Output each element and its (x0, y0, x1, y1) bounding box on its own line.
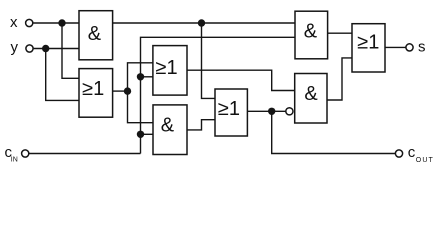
wire G3 output to G7 input 1 (187, 70, 295, 90)
terminal circle x (26, 19, 33, 26)
wire cin vertical riser to G6 input 2 (141, 37, 296, 153)
wire G6 output to G8 input 1 (328, 32, 352, 34)
and-gate G1 (x AND y) (79, 11, 113, 60)
wire G4 output to G5 input 2 (187, 120, 215, 130)
svg-text:y: y (11, 39, 19, 56)
wire y branch to G2 input 2 (46, 49, 79, 101)
svg-text:&: & (304, 21, 318, 43)
svg-text:≥1: ≥1 (357, 32, 379, 54)
svg-text:≥1: ≥1 (156, 57, 178, 79)
and-gate G7 (295, 74, 327, 124)
wire y input rail (34, 48, 79, 50)
svg-text:≥1: ≥1 (218, 98, 240, 120)
wire cin rail (29, 153, 140, 155)
or-gate G8 (sum) (352, 24, 385, 72)
wire cin branch to G4 input 2 (141, 133, 154, 135)
wire x input rail (33, 22, 79, 24)
wire G2 output branch to G4 input 1 (128, 91, 154, 123)
svg-text:IN: IN (11, 156, 18, 163)
svg-text:OUT: OUT (416, 157, 434, 164)
and-gate G4 (153, 105, 187, 155)
junction dot cin riser lower (137, 131, 144, 138)
wire cin branch to G3 input 2 (141, 76, 153, 78)
negation bubble at G7 input 2 (286, 108, 293, 115)
svg-text:≥1: ≥1 (82, 78, 104, 100)
svg-text:s: s (418, 38, 426, 55)
svg-text:&: & (304, 83, 318, 105)
or-gate G3 (153, 46, 187, 96)
wire G2 output (113, 90, 128, 92)
svg-text:c: c (408, 144, 416, 161)
junction dot G5 output / cout (268, 108, 275, 115)
terminal circle cout (395, 150, 402, 157)
junction dot G2 output (124, 87, 131, 94)
wire G1 output branch to G5 input 1 (202, 23, 216, 98)
or-gate G2 (x OR y) (79, 69, 113, 118)
wire cout branch down and right (272, 111, 396, 153)
wire G8 output to s terminal (385, 46, 406, 48)
svg-text:&: & (88, 23, 102, 45)
or-gate G5 (carry) (215, 89, 247, 136)
wire G2 output branch to G3 input 1 (128, 63, 153, 91)
junction dot on x rail (58, 19, 65, 26)
wire G1 output rail to G6 (113, 22, 295, 24)
terminal circle y (26, 45, 33, 52)
terminal circle s (406, 44, 413, 51)
wire x branch to G2 input 1 (62, 23, 79, 78)
terminal circle cin (22, 150, 29, 157)
junction dot on y rail (42, 45, 49, 52)
svg-text:x: x (10, 14, 18, 31)
junction dot G1 output rail (198, 19, 205, 26)
svg-text:&: & (161, 115, 175, 137)
wire G5 output to negation bubble (247, 110, 285, 112)
junction dot cin riser upper (137, 73, 144, 80)
and-gate G6 (295, 11, 328, 59)
wire G7 output to G8 input 2 (327, 58, 352, 100)
